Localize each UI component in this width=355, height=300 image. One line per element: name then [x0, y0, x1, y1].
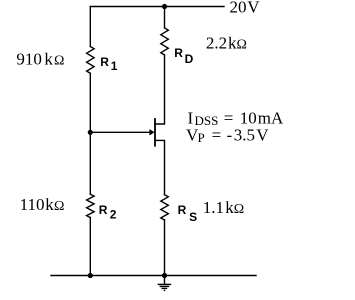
svg-text:110: 110 [20, 195, 45, 214]
svg-text:k: k [45, 195, 54, 214]
svg-text:R: R [100, 55, 109, 69]
junction dot bottom-right [162, 273, 167, 278]
resistor R2 [87, 194, 95, 217]
wire gate [90, 131, 150, 133]
svg-text:3.5: 3.5 [234, 126, 255, 145]
ground stub [164, 276, 166, 285]
svg-text:R: R [174, 46, 183, 60]
svg-text:910: 910 [16, 49, 42, 68]
svg-text:V: V [256, 126, 269, 145]
wire top rail [90, 6, 224, 8]
svg-text:Ω: Ω [54, 53, 64, 68]
resistor R1 [87, 47, 95, 74]
svg-text:1: 1 [111, 59, 118, 73]
svg-text:Ω: Ω [54, 199, 64, 214]
junction dot top [162, 4, 167, 9]
wire right branch top [164, 7, 166, 28]
svg-text:S: S [189, 210, 197, 224]
wire drain lead [155, 55, 165, 124]
gate arrowhead [149, 129, 154, 135]
wire source lead [155, 140, 165, 194]
svg-text:2.2: 2.2 [206, 34, 227, 53]
svg-text:k: k [44, 49, 53, 68]
svg-text:2: 2 [110, 208, 117, 222]
svg-text:=: = [212, 126, 222, 145]
wire bottom rail [51, 275, 256, 277]
wire left branch lower [89, 218, 91, 276]
svg-text:V: V [247, 0, 260, 16]
svg-text:-: - [227, 126, 233, 145]
svg-text:R: R [99, 203, 108, 217]
resistor RS [161, 195, 169, 220]
svg-text:Ω: Ω [234, 202, 244, 217]
svg-text:20: 20 [230, 0, 247, 16]
ground [158, 284, 172, 290]
wire left branch upper [89, 7, 91, 47]
transistor Q1 channel [154, 119, 156, 146]
resistor RD [161, 28, 169, 55]
svg-text:Ω: Ω [237, 38, 247, 53]
wire right branch bottom [164, 220, 166, 276]
svg-text:P: P [198, 130, 205, 145]
svg-text:R: R [178, 203, 187, 217]
wire left branch middle [89, 73, 91, 194]
svg-text:1.1: 1.1 [203, 198, 224, 217]
svg-text:D: D [185, 52, 194, 66]
junction dot gate [88, 130, 93, 135]
junction dot bottom-left [88, 273, 93, 278]
